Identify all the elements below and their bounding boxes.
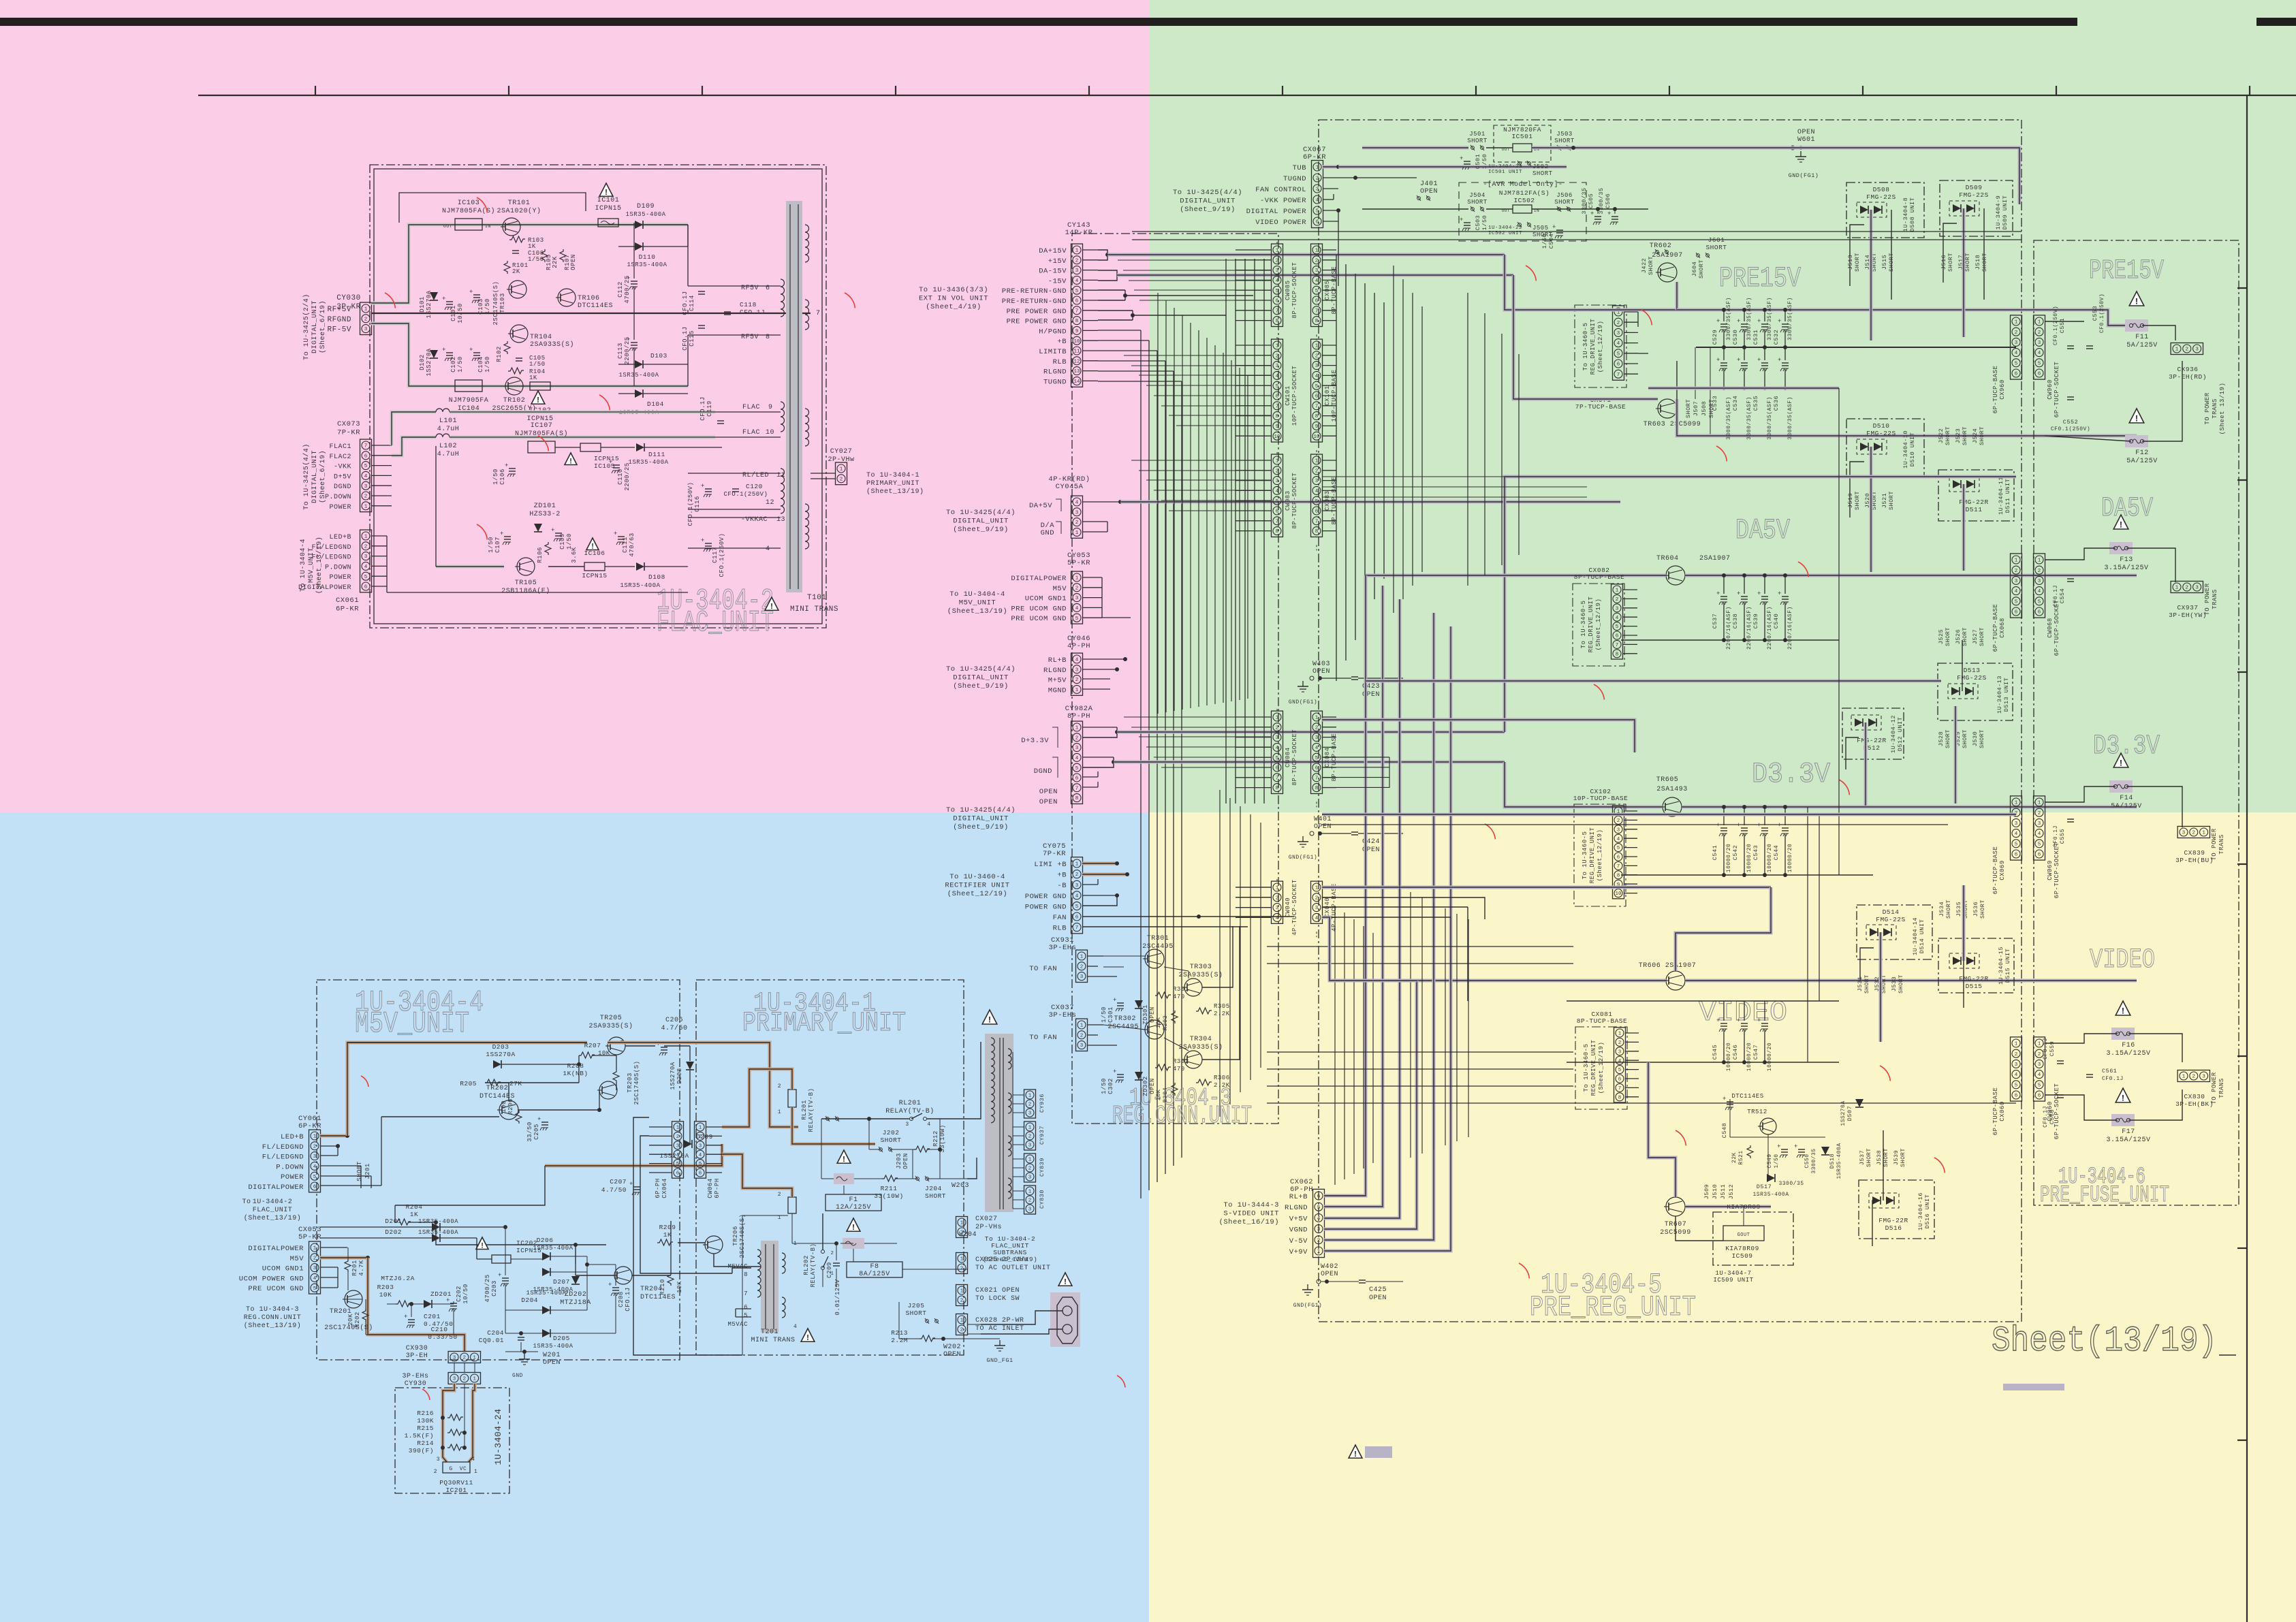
svg-text:P.DOWN: P.DOWN (325, 564, 351, 571)
svg-text:1: 1 (1028, 1190, 1032, 1195)
svg-text:3: 3 (1315, 906, 1319, 911)
diode D-zener ZD202 MTZJ18A (571, 1276, 580, 1284)
transistor TR301 2SC4495 (1145, 949, 1164, 968)
svg-text:3: 3 (1617, 331, 1620, 336)
svg-text:CW069: CW069 (2047, 860, 2054, 880)
diode D518 1SR35-400A (1821, 1147, 1829, 1155)
svg-text:+: + (500, 530, 504, 537)
svg-text:10000/20: 10000/20 (1767, 844, 1773, 872)
svg-text:3300/35(ASF): 3300/35(ASF) (1787, 297, 1793, 340)
svg-text:D208: D208 (676, 1068, 683, 1084)
svg-text:M+5V: M+5V (1048, 677, 1067, 685)
svg-text:1: 1 (1616, 588, 1619, 594)
svg-text:2.2K: 2.2K (1214, 1082, 1230, 1089)
svg-text:1: 1 (1028, 1094, 1032, 1099)
svg-text:2: 2 (463, 1356, 467, 1361)
svg-text:SHORT: SHORT (1854, 491, 1861, 510)
svg-text:D513 UNIT: D513 UNIT (2003, 678, 2010, 712)
svg-text:+: + (498, 1272, 502, 1279)
svg-text:!: ! (480, 1243, 485, 1251)
svg-text:DIGITAL_UNIT: DIGITAL_UNIT (1180, 197, 1236, 206)
svg-text:1/50: 1/50 (488, 537, 494, 553)
resistor R102 2K (504, 341, 510, 354)
svg-text:DA+5V: DA+5V (1029, 502, 1052, 510)
svg-text:+: + (1113, 1068, 1117, 1075)
wire bundle horizontals into CW083 socket (1131, 460, 1272, 461)
svg-text:1SS270A: 1SS270A (426, 290, 433, 318)
svg-text:1: 1 (364, 504, 368, 509)
svg-text:M5V_UNIT: M5V_UNIT (959, 599, 996, 607)
resistor R214 390(F) (447, 1444, 463, 1450)
svg-text:OPEN: OPEN (1039, 798, 1058, 806)
relay RL202 contacts (821, 1250, 825, 1254)
transistor TR605 2SA1493 (1663, 797, 1682, 816)
svg-text:C209: C209 (826, 1262, 833, 1278)
capacitor C206 4.7/50 (661, 1047, 667, 1048)
svg-text:-15V: -15V (1048, 277, 1067, 285)
svg-text:FLAC2: FLAC2 (329, 454, 351, 461)
svg-text:FMG-22S: FMG-22S (1876, 916, 1905, 923)
svg-text:To 1U-3460-5: To 1U-3460-5 (1580, 601, 1587, 649)
svg-text:+: + (1737, 822, 1741, 829)
connector CX071 7P-TUCP-BASE with REG_DRIVE note (1575, 305, 1626, 387)
fuse IC101 ICPN15 (599, 183, 613, 196)
svg-text:6: 6 (2015, 1094, 2018, 1099)
svg-text:5: 5 (2015, 599, 2018, 605)
diode D207 1SR35-400A (542, 1268, 550, 1276)
capacitor C108 1/50 (512, 250, 519, 251)
svg-text:CX936: CX936 (2177, 366, 2198, 373)
wire M5V rails (347, 1042, 587, 1043)
connector pair CW083 8P-TUCP-SOCKET/CX083 8P-TUCP-BASE (1272, 454, 1283, 537)
svg-text:C210: C210 (431, 1326, 448, 1333)
svg-text:J530: J530 (1972, 731, 1979, 746)
resistor R210 10K (667, 1273, 674, 1286)
svg-text:!: ! (987, 1015, 992, 1025)
svg-text:C538: C538 (1732, 614, 1739, 629)
svg-text:D509 UNIT: D509 UNIT (2002, 195, 2009, 229)
svg-text:7: 7 (1075, 308, 1079, 314)
svg-text:D518: D518 (1829, 1154, 1836, 1168)
svg-text:J527: J527 (1972, 629, 1979, 644)
diode D517 (1767, 1174, 1775, 1182)
svg-text:3: 3 (2038, 579, 2041, 584)
svg-text:SHORT: SHORT (356, 1161, 363, 1181)
svg-text:TRANS: TRANS (2212, 398, 2218, 419)
svg-text:MTZJ18A: MTZJ18A (560, 1299, 591, 1307)
wires transformer secondaries (1013, 1094, 1024, 1096)
svg-text:TUGND: TUGND (1283, 175, 1306, 183)
svg-text:2: 2 (1317, 1238, 1321, 1243)
svg-text:6: 6 (1315, 299, 1319, 304)
connector CX021 OPEN (956, 1285, 968, 1306)
svg-text:7: 7 (1616, 643, 1619, 648)
capacitor bank C537-C540 2200/16 (1720, 596, 1727, 597)
svg-text:4: 4 (699, 1153, 702, 1158)
svg-text:1: 1 (676, 1126, 680, 1131)
svg-text:J506: J506 (1556, 192, 1573, 199)
relay RL201 RELAY(TV-B) coil (788, 1090, 796, 1107)
svg-text:TR206: TR206 (732, 1226, 739, 1246)
svg-text:2: 2 (364, 544, 368, 550)
svg-text:C555: C555 (2059, 829, 2066, 844)
svg-text:3: 3 (1618, 1049, 1622, 1055)
svg-text:3: 3 (1080, 974, 1084, 980)
svg-text:C549: C549 (1767, 1154, 1773, 1168)
svg-text:C559: C559 (2049, 1041, 2056, 1056)
diode unit box D514 FMG-22S (1857, 905, 1932, 959)
transformer T201 core gray (761, 1241, 779, 1333)
capacitor C501 1/50 (1464, 161, 1471, 162)
svg-text:3300/35(ASF): 3300/35(ASF) (1726, 297, 1732, 340)
svg-text:RELAY(TV-B): RELAY(TV-B) (885, 1107, 934, 1115)
svg-text:4: 4 (364, 474, 368, 479)
svg-text:3.15A/125V: 3.15A/125V (2106, 1136, 2150, 1144)
svg-text:SHORT: SHORT (1698, 259, 1705, 279)
capacitor C506 3300/35 (1611, 216, 1618, 217)
svg-text:3300/35(ASF): 3300/35(ASF) (1746, 297, 1752, 340)
svg-text:To 1U-3460-5: To 1U-3460-5 (1583, 1044, 1590, 1092)
warning above main transformer (982, 1010, 997, 1024)
transistor TR602 2SA1907 (1658, 263, 1677, 282)
svg-text:9: 9 (1315, 424, 1319, 430)
svg-text:CX060: CX060 (1999, 1101, 2006, 1122)
svg-text:CX027: CX027 (975, 1215, 998, 1223)
svg-text:1U-3404-21: 1U-3404-21 (1488, 164, 1522, 170)
svg-text:J203: J203 (896, 1153, 902, 1169)
svg-text:3: 3 (364, 327, 368, 332)
svg-text:R106: R106 (537, 547, 544, 563)
capacitor C117 CFO.1(250V) (705, 543, 712, 544)
svg-text:PRE_REG_UNIT: PRE_REG_UNIT (1530, 1291, 1696, 1324)
IC509 unit KIA78R09 (1713, 1212, 1793, 1265)
svg-text:1: 1 (1075, 530, 1079, 536)
svg-text:6P-TUCP-BASE: 6P-TUCP-BASE (1992, 1087, 1999, 1136)
svg-text:7: 7 (1315, 404, 1319, 409)
svg-text:To 1U-3404-1: To 1U-3404-1 (866, 472, 919, 479)
svg-text:C537: C537 (1712, 614, 1718, 629)
svg-text:CW064: CW064 (707, 1178, 714, 1198)
svg-text:FLAC: FLAC (742, 404, 760, 411)
svg-text:9: 9 (1075, 329, 1079, 334)
transistor TR202 DTC144ES (499, 1100, 518, 1119)
svg-text:5: 5 (2038, 599, 2041, 605)
svg-text:7: 7 (364, 444, 368, 449)
svg-text:6: 6 (2015, 610, 2018, 616)
svg-text:10P-TUCP-BASE: 10P-TUCP-BASE (1573, 795, 1629, 802)
svg-text:2SC1740S(S): 2SC1740S(S) (633, 1061, 640, 1105)
svg-text:CFO.1(250V): CFO.1(250V) (687, 482, 694, 526)
svg-text:-[AVR Model Only]-: -[AVR Model Only]- (1483, 180, 1562, 189)
svg-text:C106: C106 (499, 468, 506, 485)
svg-text:DA+15V: DA+15V (1039, 247, 1067, 255)
svg-text:DTC114ES: DTC114ES (1731, 1093, 1763, 1100)
svg-text:2SB1186A(E): 2SB1186A(E) (501, 587, 550, 595)
AVR model only box (1459, 182, 1586, 241)
svg-text:6: 6 (744, 1304, 748, 1311)
capacitor C205 33/50 (541, 1122, 548, 1123)
svg-text:IC101: IC101 (597, 197, 620, 204)
svg-text:CF0.1(250V): CF0.1(250V) (2051, 426, 2090, 432)
svg-text:D204: D204 (521, 1297, 538, 1304)
svg-text:MINI TRANS: MINI TRANS (751, 1337, 795, 1344)
svg-text:5: 5 (1315, 384, 1319, 389)
connector CX936 3P-EH(RD) (2171, 343, 2203, 355)
capacitor C105 1/50 (516, 357, 522, 359)
svg-text:D514 UNIT: D514 UNIT (1919, 919, 1925, 953)
svg-text:+: + (1716, 318, 1720, 325)
svg-text:3: 3 (2195, 347, 2199, 353)
svg-text:EXT IN VOL UNIT: EXT IN VOL UNIT (919, 295, 988, 303)
svg-text:-B: -B (1057, 882, 1067, 890)
svg-text:DGND: DGND (334, 483, 351, 491)
svg-text:To 1U-3404-3: To 1U-3404-3 (246, 1306, 299, 1314)
svg-text:SHORT: SHORT (1467, 199, 1488, 206)
svg-text:1SS270A: 1SS270A (426, 348, 433, 376)
svg-text:C115: C115 (689, 330, 695, 347)
svg-text:C539: C539 (1752, 614, 1759, 629)
main transformer core gray (985, 1034, 1013, 1212)
svg-text:F8: F8 (870, 1263, 879, 1271)
svg-text:C425: C425 (1369, 1286, 1387, 1294)
red check marks pink area (477, 197, 487, 212)
diode D205 1SR35-400A (542, 1329, 550, 1337)
svg-text:1/50: 1/50 (492, 468, 499, 485)
svg-text:OPEN: OPEN (1369, 1294, 1387, 1302)
svg-text:14P-KR: 14P-KR (1065, 229, 1093, 237)
svg-text:J509: J509 (1703, 1184, 1710, 1199)
svg-text:C530: C530 (1732, 330, 1739, 345)
svg-text:CY839: CY839 (1039, 1158, 1045, 1177)
svg-text:TR103: TR103 (499, 293, 506, 313)
svg-text:6: 6 (1075, 915, 1079, 921)
svg-text:1: 1 (2175, 586, 2179, 591)
svg-text:R209: R209 (659, 1224, 676, 1231)
svg-text:FMG-22S: FMG-22S (1866, 193, 1896, 201)
svg-text:TO FAN: TO FAN (1029, 1034, 1057, 1042)
svg-text:TR603 2SC5099: TR603 2SC5099 (1644, 421, 1701, 428)
wire CY061 net to RL201 (722, 1069, 792, 1127)
svg-text:3300/35(ASF): 3300/35(ASF) (1787, 396, 1793, 440)
zener ZD302 OPEN (1135, 1072, 1143, 1080)
svg-text:C103: C103 (477, 298, 484, 315)
svg-text:4700/25: 4700/25 (624, 275, 631, 303)
gray reference bar (2003, 1384, 2064, 1390)
svg-text:GND_FG1: GND_FG1 (986, 1357, 1013, 1364)
svg-text:C533: C533 (1712, 396, 1718, 411)
svg-text:FMG-22S: FMG-22S (1957, 674, 1986, 682)
svg-text:3: 3 (437, 1457, 440, 1463)
svg-text:MGND: MGND (1048, 686, 1067, 695)
svg-text:1: 1 (1317, 1250, 1321, 1255)
svg-text:2SA1493: 2SA1493 (1656, 786, 1688, 793)
svg-text:2200/25: 2200/25 (624, 462, 631, 490)
svg-text:J522: J522 (1938, 428, 1945, 443)
svg-text:C547: C547 (1752, 1045, 1759, 1060)
svg-text:3P-EHs: 3P-EHs (402, 1373, 428, 1380)
svg-text:!: ! (1063, 1277, 1067, 1287)
svg-text:6: 6 (699, 1171, 702, 1177)
connector CX839 3P-EH(BU) (2177, 827, 2209, 838)
svg-text:4: 4 (1315, 746, 1319, 751)
svg-text:J525: J525 (1938, 629, 1945, 644)
svg-text:3: 3 (1617, 827, 1620, 833)
diode D209 1SS270A (684, 1140, 692, 1148)
wire IC502 rail (1362, 208, 1468, 210)
svg-text:CF0.1J: CF0.1J (2102, 1076, 2124, 1082)
IC103 NJM7805FA regulator (455, 219, 482, 230)
svg-text:IC501: IC501 (1511, 133, 1532, 140)
svg-text:D3.3V: D3.3V (1752, 758, 1830, 791)
connector pair CW040 4P-TUCP-SOCKET/CX040 4P-TUCP-BASE (1272, 881, 1283, 923)
svg-text:(Sheet_9/19): (Sheet_9/19) (953, 682, 1009, 690)
svg-text:2: 2 (1080, 964, 1084, 970)
svg-text:(Sheet_6/19): (Sheet_6/19) (319, 300, 327, 353)
svg-text:1SR35-400A: 1SR35-400A (418, 1229, 458, 1236)
svg-text:3.6K: 3.6K (571, 547, 578, 563)
svg-text:1: 1 (364, 535, 368, 540)
svg-text:RLB: RLB (1053, 358, 1067, 366)
diode D208 1SS270A (686, 1062, 694, 1070)
svg-text:1: 1 (1028, 1158, 1032, 1163)
svg-text:1: 1 (1618, 1032, 1622, 1037)
svg-text:R204: R204 (406, 1203, 423, 1211)
svg-text:FAN CONTROL: FAN CONTROL (1255, 186, 1306, 194)
svg-text:2: 2 (364, 494, 368, 500)
transistor TR104 2SA933S (510, 325, 528, 343)
relay RL202 RELAY(TV-B) coil (788, 1197, 796, 1213)
svg-text:3: 3 (1075, 883, 1079, 889)
svg-text:GND(FG1): GND(FG1) (1289, 855, 1317, 861)
unit box 1U-3404-24 (395, 1388, 509, 1493)
svg-text:R301: R301 (1173, 986, 1189, 993)
diode unit box D509 FMG-22S (1940, 180, 2013, 236)
diode unit box D515 FMG-22R (1938, 938, 2014, 993)
svg-text:2200/25: 2200/25 (624, 336, 631, 364)
svg-text:2.2M: 2.2M (891, 1337, 908, 1344)
diode D203 1SS270A (493, 1060, 501, 1068)
resistor R304 10K (1171, 1083, 1178, 1096)
background blue quadrant (0, 812, 1149, 1622)
svg-text:10K: 10K (676, 1281, 683, 1293)
diode D507 1SS270A (1855, 1099, 1863, 1107)
connector CY027 2P-VHw (836, 462, 847, 485)
svg-text:SHORT: SHORT (1532, 170, 1553, 177)
svg-text:FMG-22S: FMG-22S (1866, 430, 1896, 437)
top border bar right segment (2256, 18, 2296, 26)
svg-text:3: 3 (453, 1377, 456, 1382)
wires D510/D511 nets (1850, 462, 1864, 518)
svg-text:CW960: CW960 (2047, 379, 2054, 400)
svg-text:1: 1 (778, 1109, 781, 1115)
resistor R303 10K (1171, 1011, 1178, 1023)
svg-text:FLAC1: FLAC1 (329, 443, 351, 451)
wire M5V mid net (545, 1144, 722, 1166)
svg-text:V-5V: V-5V (1289, 1237, 1308, 1245)
wire FLAC C112 leads (633, 223, 635, 279)
svg-text:5: 5 (2038, 361, 2041, 366)
transistor TR304 2SA9335 (1184, 1051, 1202, 1068)
svg-text:3: 3 (2015, 821, 2018, 827)
svg-text:TR106: TR106 (578, 295, 600, 302)
svg-text:C546: C546 (1732, 1045, 1739, 1060)
svg-text:5: 5 (744, 1312, 748, 1319)
svg-text:3300/35(ASF): 3300/35(ASF) (1746, 396, 1752, 440)
svg-text:IC106: IC106 (584, 550, 605, 557)
svg-text:5: 5 (2038, 1083, 2041, 1088)
svg-text:1U-3404-24: 1U-3404-24 (493, 1408, 503, 1465)
svg-text:10000/20: 10000/20 (1746, 1043, 1752, 1071)
svg-text:MINI TRANS: MINI TRANS (790, 605, 838, 614)
svg-text:CF0.1J: CF0.1J (2043, 1038, 2049, 1060)
svg-text:TRANS: TRANS (2212, 589, 2218, 609)
svg-text:5: 5 (2015, 842, 2018, 847)
svg-text:G: G (449, 1466, 452, 1472)
svg-text:5: 5 (1317, 1205, 1321, 1211)
svg-text:C551: C551 (2059, 318, 2066, 333)
svg-text:4: 4 (2038, 351, 2041, 356)
svg-text:OPEN: OPEN (943, 1351, 961, 1358)
svg-text:D507: D507 (1846, 1106, 1853, 1121)
capacitor C203 4700/25 (502, 1277, 509, 1279)
capacitor C111 470/63 (618, 536, 625, 537)
svg-text:10: 10 (1313, 434, 1320, 440)
svg-text:(Sheet_9/19): (Sheet_9/19) (1180, 206, 1236, 214)
svg-text:FL/LEDGND: FL/LEDGND (262, 1154, 304, 1162)
svg-text:M5V: M5V (1053, 585, 1067, 593)
svg-text:10K: 10K (379, 1291, 392, 1299)
svg-text:3: 3 (676, 1143, 680, 1149)
svg-text:+: + (609, 459, 613, 466)
svg-text:4: 4 (766, 545, 770, 553)
svg-text:4: 4 (1075, 500, 1079, 506)
svg-text:+: + (1607, 210, 1611, 217)
svg-text:4: 4 (2038, 1072, 2041, 1078)
svg-text:PRE15V: PRE15V (2089, 256, 2164, 287)
svg-text:4.7uH: 4.7uH (437, 451, 460, 458)
svg-text:TO AC INLET: TO AC INLET (975, 1325, 1024, 1333)
svg-text:1: 1 (1075, 862, 1079, 868)
svg-text:8P-TUCP-SOCKET: 8P-TUCP-SOCKET (1291, 473, 1298, 529)
svg-text:+: + (1737, 357, 1741, 364)
diode D201 1SR35-400A (432, 1223, 440, 1231)
fuse F1 12A/125V (837, 1150, 851, 1163)
svg-text:To 1U-3460-5: To 1U-3460-5 (1582, 323, 1589, 371)
bus wire VIDEO rail (1417, 979, 1666, 983)
svg-text:D509: D509 (1966, 184, 1983, 191)
svg-text:3: 3 (2202, 1075, 2205, 1080)
svg-text:P.DOWN: P.DOWN (325, 494, 351, 501)
wire extra horizontals D3.3V band (1322, 813, 2016, 816)
unit box 1U-3404-1 PRIMARY_UNIT (696, 980, 964, 1355)
svg-text:3: 3 (1028, 1207, 1032, 1213)
svg-text:SHORT: SHORT (1962, 729, 1968, 748)
svg-text:D207: D207 (553, 1278, 570, 1286)
svg-text:CF0.1(250V): CF0.1(250V) (2099, 293, 2105, 333)
wire bundle from CY143 pins (1082, 249, 1098, 251)
connector CX027 2P-VHs (956, 1217, 968, 1238)
svg-text:6: 6 (1315, 509, 1319, 515)
svg-text:DA-15V: DA-15V (1039, 268, 1067, 276)
svg-text:8: 8 (1315, 529, 1319, 535)
fuse F8 8A/125V (847, 1218, 860, 1231)
wires primary lower (822, 1213, 823, 1250)
svg-text:C506: C506 (1605, 193, 1611, 208)
svg-text:3: 3 (2038, 1062, 2041, 1068)
diode D204 1SR35-400A (542, 1306, 550, 1314)
svg-text:J505: J505 (1532, 225, 1549, 232)
capacitor C118 CFO.1J (724, 311, 731, 313)
